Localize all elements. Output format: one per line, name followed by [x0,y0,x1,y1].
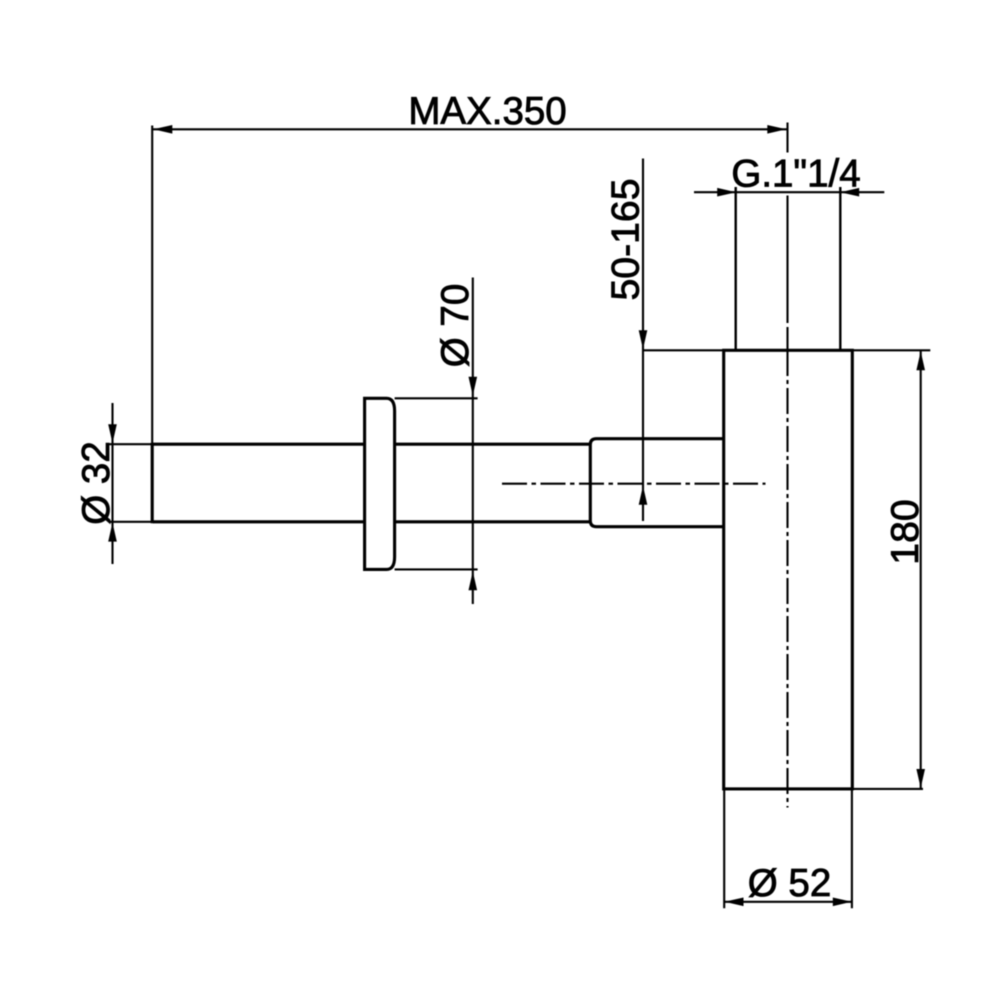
dimension 180 line [920,351,922,788]
centre line: vertical pipe axis middle segment [786,196,788,324]
extension line: body top left (50-165 datum) [642,349,724,351]
extension line: flange top (Ø70) [395,397,478,399]
svg-text:180: 180 [884,499,927,564]
svg-text:Ø 32: Ø 32 [75,441,118,524]
extension line: pipe top left (Ø32) [109,443,153,445]
wall flange (rosette) [365,398,395,569]
centre line: horizontal pipe axis [502,483,766,485]
extension line: pipe bottom left (Ø32) [109,521,153,523]
extension line: body right down (Ø52) [851,789,853,908]
arrow MAX.350 left [153,125,172,134]
extension line: pipe left end up (MAX.350) [151,126,153,444]
centre line: body axis dash-dot [786,350,788,808]
svg-text:Ø 70: Ø 70 [434,284,477,367]
extension line: body bottom right (180 datum) [852,788,923,790]
horizontal pipe top edge (right of flange) [395,443,591,446]
dimension MAX.350 line [153,128,787,130]
arrow 50-165 down [639,330,648,349]
dimension Ø52 line [724,901,852,903]
horizontal pipe bottom edge (right of flange) [395,520,591,523]
horizontal pipe bottom edge (left of flange) [153,520,365,523]
dimension Ø32 line [111,403,113,564]
pipe left end cap [151,443,154,524]
arrow G left [717,188,736,197]
arrow G right [840,188,859,197]
svg-text:Ø 52: Ø 52 [748,862,831,905]
connector nut at body inlet [590,439,724,527]
arrow Ø52 right [833,898,852,907]
dimension Ø70 line [472,278,474,605]
centre line: vertical pipe axis top segment (MAX.350 extension) [786,123,788,153]
arrow Ø52 left [725,898,744,907]
horizontal pipe top edge (left of flange) [153,443,365,446]
arrow 180 down [916,769,925,788]
trap body [724,350,853,789]
vertical pipe G 1 1/4 right outline [839,187,841,350]
svg-text:50-165: 50-165 [605,178,648,300]
arrow Ø32 up [108,523,117,542]
arrow Ø70 down [469,377,478,396]
extension line: body left down (Ø52) [723,789,725,908]
svg-text:MAX.350: MAX.350 [408,90,566,133]
extension line: body top right (180 datum) [852,349,930,351]
dimension G.1"1/4 line [694,191,884,193]
dimension 50-165 line [642,159,644,522]
arrow Ø70 up [469,571,478,590]
arrow Ø32 down [108,424,117,443]
arrow 50-165 up [639,486,648,505]
extension line: flange bottom (Ø70) [395,568,478,570]
arrow 180 up [916,351,925,370]
vertical pipe G 1 1/4 left outline [735,187,737,350]
arrow MAX.350 right [767,125,786,134]
svg-text:G.1"1/4: G.1"1/4 [731,152,860,195]
